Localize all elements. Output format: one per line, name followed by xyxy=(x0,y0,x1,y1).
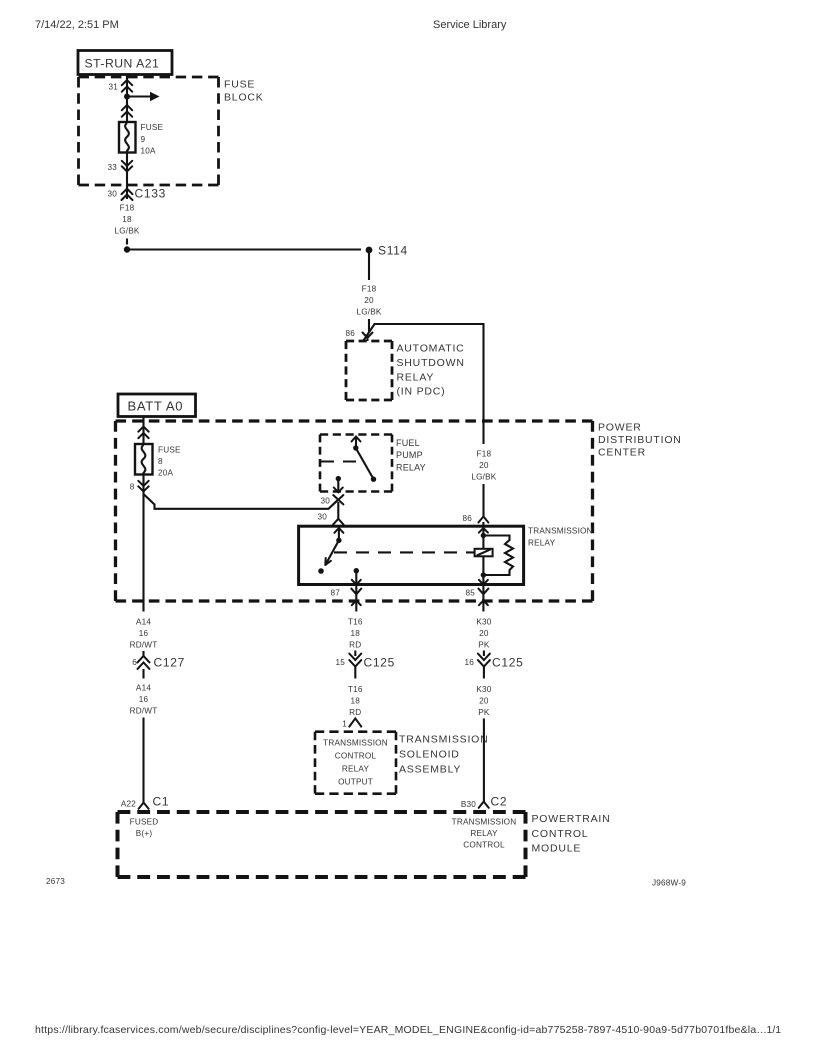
svg-text:10A: 10A xyxy=(141,147,157,156)
svg-text:CONTROL: CONTROL xyxy=(335,752,377,761)
connector chevrons pin 8 xyxy=(138,481,148,492)
transmission relay coil xyxy=(475,522,513,585)
svg-text:J968W-9: J968W-9 xyxy=(652,879,686,888)
svg-text:31: 31 xyxy=(108,83,118,92)
wire label A14 16 RD/WT (upper) xyxy=(130,618,158,650)
svg-text:SOLENOID: SOLENOID xyxy=(399,749,460,761)
svg-text:S114: S114 xyxy=(378,244,408,258)
wire from BATT A0 to fuse 8 xyxy=(142,417,144,445)
svg-text:9: 9 xyxy=(141,135,146,144)
svg-text:PK: PK xyxy=(478,708,490,717)
TCRO label xyxy=(323,739,388,787)
svg-text:F18: F18 xyxy=(362,285,377,294)
svg-text:1/1: 1/1 xyxy=(767,1024,782,1036)
connector chevrons below BATT A0 xyxy=(138,427,148,439)
svg-text:T16: T16 xyxy=(348,685,363,694)
svg-text:18: 18 xyxy=(122,215,132,224)
svg-text:20: 20 xyxy=(479,461,489,470)
svg-text:18: 18 xyxy=(351,629,361,638)
transmission relay label xyxy=(528,527,593,548)
connector chevrons below junction xyxy=(122,105,132,117)
svg-text:20: 20 xyxy=(364,296,374,305)
svg-text:RELAY: RELAY xyxy=(397,372,435,384)
ASD pin stub into box xyxy=(366,337,368,341)
svg-text:RD/WT: RD/WT xyxy=(130,641,158,650)
svg-text:ASSEMBLY: ASSEMBLY xyxy=(399,764,461,776)
wire label F18 18 LG/BK xyxy=(114,204,139,236)
splice S114 xyxy=(124,244,408,258)
wire stub to pin 86 xyxy=(482,484,484,517)
branch arrow to right xyxy=(127,95,151,97)
svg-text:https://library.fcaservices.co: https://library.fcaservices.com/web/secu… xyxy=(35,1024,767,1036)
wire label K30 20 PK (lower) xyxy=(476,685,491,717)
wire between pin 30 connectors xyxy=(337,502,339,519)
wire from S114 down xyxy=(368,253,370,280)
connector C133 xyxy=(107,185,166,201)
fuel pump relay label xyxy=(396,438,426,473)
wire pin 31 from ST-RUN A21 to fuse 9 xyxy=(126,75,128,123)
svg-text:(IN PDC): (IN PDC) xyxy=(397,386,446,398)
PDC label xyxy=(598,422,682,459)
pin 30 chevron into transmission relay xyxy=(333,519,344,525)
svg-text:FUSE: FUSE xyxy=(158,446,181,455)
connector C125 pin 16 xyxy=(464,651,523,679)
transmission relay pin 87 xyxy=(352,568,361,585)
wire label K30 20 PK (upper) xyxy=(476,618,491,650)
svg-text:F18: F18 xyxy=(120,204,135,213)
svg-text:LG/BK: LG/BK xyxy=(471,473,496,482)
svg-text:CENTER: CENTER xyxy=(598,447,646,459)
svg-text:20A: 20A xyxy=(158,469,174,478)
svg-text:PUMP: PUMP xyxy=(396,450,423,460)
transmission relay linkage (dashed) xyxy=(334,551,475,553)
svg-text:B30: B30 xyxy=(461,800,476,809)
svg-text:30: 30 xyxy=(320,497,330,506)
connector C127 xyxy=(132,651,185,679)
transmission control relay output (dashed box) xyxy=(315,730,396,733)
wire label T16 18 RD (lower) xyxy=(348,685,363,717)
pin B30 connector C2 xyxy=(461,795,507,810)
fuse block (dashed box) xyxy=(79,76,219,79)
svg-text:RELAY: RELAY xyxy=(528,539,556,548)
svg-text:C127: C127 xyxy=(154,656,186,670)
svg-text:16: 16 xyxy=(464,658,474,667)
svg-text:OUTPUT: OUTPUT xyxy=(338,778,373,787)
fuse F9 xyxy=(119,122,136,153)
svg-text:CONTROL: CONTROL xyxy=(463,841,505,850)
wire label F18 20 LG/BK xyxy=(356,285,381,317)
svg-text:F18: F18 xyxy=(477,450,492,459)
svg-text:1: 1 xyxy=(342,720,347,729)
svg-text:POWERTRAIN: POWERTRAIN xyxy=(532,813,611,825)
svg-text:8: 8 xyxy=(130,483,135,492)
transmission solenoid assembly label xyxy=(399,734,489,776)
powertrain control module (dashed box) xyxy=(118,810,526,814)
svg-text:20: 20 xyxy=(479,697,489,706)
relay: automatic shutdown relay (dashed box) xyxy=(346,340,392,343)
svg-text:A22: A22 xyxy=(121,800,136,809)
node ST-RUN A21 xyxy=(78,51,172,75)
svg-text:FUSED: FUSED xyxy=(130,818,159,827)
svg-text:BATT A0: BATT A0 xyxy=(128,399,184,414)
power distribution center (dashed box) xyxy=(116,419,593,422)
svg-text:85: 85 xyxy=(465,589,475,598)
svg-text:SHUTDOWN: SHUTDOWN xyxy=(397,357,465,369)
svg-text:B(+): B(+) xyxy=(136,829,153,838)
svg-text:MODULE: MODULE xyxy=(532,843,582,855)
svg-text:AUTOMATIC: AUTOMATIC xyxy=(397,343,465,355)
PCM label xyxy=(532,813,611,855)
svg-text:RD: RD xyxy=(349,708,361,717)
svg-text:7/14/22, 2:51 PM: 7/14/22, 2:51 PM xyxy=(35,19,119,31)
svg-text:RELAY: RELAY xyxy=(342,765,370,774)
svg-text:BLOCK: BLOCK xyxy=(224,92,264,104)
wire label A14 16 RD/WT (lower) xyxy=(130,684,158,716)
svg-text:C125: C125 xyxy=(364,656,396,670)
svg-text:RD/WT: RD/WT xyxy=(130,707,158,716)
node BATT A0 xyxy=(118,394,196,417)
PCM pin A22 label xyxy=(130,818,159,839)
junction dot node 31 xyxy=(124,94,130,100)
svg-text:33: 33 xyxy=(107,163,117,172)
fuel pump relay contacts xyxy=(321,437,376,493)
pin 87 wire below relay xyxy=(330,584,361,612)
svg-text:LG/BK: LG/BK xyxy=(356,308,381,317)
pin 1 chevron into solenoid assembly xyxy=(349,718,361,726)
svg-text:86: 86 xyxy=(345,329,355,338)
svg-text:FUSE: FUSE xyxy=(224,79,255,91)
svg-text:ST-RUN A21: ST-RUN A21 xyxy=(85,57,160,71)
branch wire to transmission relay (diagonal, horizontal, down) xyxy=(364,324,484,444)
svg-text:20: 20 xyxy=(479,629,489,638)
pin A22 connector C1 xyxy=(121,795,169,809)
svg-text:LG/BK: LG/BK xyxy=(114,227,139,236)
svg-text:30: 30 xyxy=(317,513,327,522)
svg-text:TRANSMISSION: TRANSMISSION xyxy=(452,818,517,827)
relay: transmission relay (solid box) xyxy=(299,526,524,584)
pin 85 wire below relay xyxy=(465,584,488,612)
svg-text:K30: K30 xyxy=(476,685,491,694)
svg-text:C133: C133 xyxy=(135,187,167,201)
svg-text:15: 15 xyxy=(335,658,345,667)
svg-text:FUEL: FUEL xyxy=(396,438,420,448)
svg-text:TRANSMISSION: TRANSMISSION xyxy=(323,739,388,748)
svg-text:18: 18 xyxy=(351,697,361,706)
svg-text:C125: C125 xyxy=(492,656,524,670)
wire pin 8 down to PCM xyxy=(142,475,144,612)
wire K30 down to PCM pin B30 xyxy=(483,719,485,803)
svg-text:RELAY: RELAY xyxy=(470,829,498,838)
svg-text:C2: C2 xyxy=(491,795,508,809)
svg-text:RD: RD xyxy=(349,641,361,650)
ASD relay label xyxy=(397,343,465,398)
svg-text:POWER: POWER xyxy=(598,422,642,434)
svg-text:DISTRIBUTION: DISTRIBUTION xyxy=(598,434,682,446)
wire label F18 20 LG/BK (in PDC) xyxy=(471,450,496,482)
PCM pin B30 label xyxy=(452,818,517,850)
svg-text:16: 16 xyxy=(139,629,149,638)
svg-text:6: 6 xyxy=(132,658,137,667)
svg-text:8: 8 xyxy=(158,457,163,466)
wire stub to splice xyxy=(126,239,128,245)
wire stub into ASD junction xyxy=(368,319,370,332)
svg-text:T16: T16 xyxy=(348,618,363,627)
connector C125 pin 15 xyxy=(335,651,395,679)
svg-text:2673: 2673 xyxy=(46,877,65,886)
transmission relay switch xyxy=(318,528,343,574)
svg-text:TRANSMISSION: TRANSMISSION xyxy=(399,734,489,746)
svg-text:PK: PK xyxy=(478,641,490,650)
wire pin 33 below fuse 9 xyxy=(126,153,128,186)
wire A14 down to PCM pin A22 xyxy=(142,718,144,804)
relay: fuel pump relay (dashed box) xyxy=(320,433,392,436)
fuse F8 xyxy=(135,444,153,475)
connector chevrons pin 33 xyxy=(122,161,132,172)
wire label T16 18 RD (upper) xyxy=(348,618,363,650)
svg-text:86: 86 xyxy=(462,514,472,523)
pin 86 ASD connector chevron xyxy=(363,333,373,338)
branch wire from fuse 8 to relay pin 30 xyxy=(144,495,338,509)
svg-text:RELAY: RELAY xyxy=(396,463,426,473)
svg-text:CONTROL: CONTROL xyxy=(532,828,589,840)
svg-text:87: 87 xyxy=(330,589,340,598)
svg-text:A14: A14 xyxy=(136,618,151,627)
svg-text:30: 30 xyxy=(107,190,117,199)
pin 86 chevrons above transmission relay xyxy=(478,517,488,533)
pin 30 fuel pump relay mating connector (X) xyxy=(333,495,343,504)
svg-text:K30: K30 xyxy=(476,618,491,627)
svg-text:A14: A14 xyxy=(136,684,151,693)
svg-text:Service Library: Service Library xyxy=(433,19,507,31)
svg-text:TRANSMISSION: TRANSMISSION xyxy=(528,527,593,536)
connector chevrons pin 31 xyxy=(122,80,132,92)
svg-text:16: 16 xyxy=(139,695,149,704)
svg-text:FUSE: FUSE xyxy=(141,123,164,132)
svg-text:C1: C1 xyxy=(153,795,170,809)
